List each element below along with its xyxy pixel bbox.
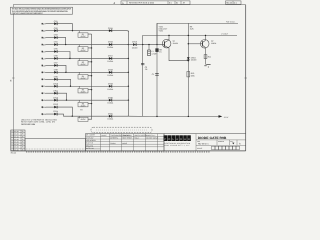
input terminal J1 xyxy=(42,23,47,26)
svg-text:-15 V: -15 V xyxy=(224,116,229,119)
zone number 4 left border xyxy=(10,78,15,83)
wire input 8 lead xyxy=(45,71,54,73)
dashed stamp box xyxy=(91,127,152,133)
supply label block xyxy=(159,25,169,32)
zone tick right border xyxy=(244,77,247,79)
wire input pair 4 merge xyxy=(57,65,66,72)
junction Q2 base xyxy=(188,43,189,44)
wire resistor R7 output stub xyxy=(88,118,92,120)
company logo POLARAD xyxy=(164,135,191,141)
diode CR16 xyxy=(187,57,196,62)
diode CR16 xyxy=(107,41,114,49)
junction bus B row 3 xyxy=(128,58,129,59)
svg-text:1N34A: 1N34A xyxy=(107,102,114,105)
wire input pair 5 merge xyxy=(57,79,70,86)
resistor R5 xyxy=(78,88,88,93)
svg-text:O: O xyxy=(168,138,170,141)
junction pair 6 xyxy=(66,99,67,100)
diode CR13 xyxy=(53,103,58,108)
svg-text:2N404: 2N404 xyxy=(173,42,178,45)
diode CR6 xyxy=(54,55,58,60)
resistor R7 xyxy=(78,109,88,122)
svg-text:45.3K: 45.3K xyxy=(81,91,87,94)
wire resistor R1 entry stub xyxy=(78,31,80,33)
notes unless otherwise indicated xyxy=(21,118,58,125)
wire gate row 2 xyxy=(66,44,129,46)
svg-text:SIZE: SIZE xyxy=(197,141,200,143)
parts list strip xyxy=(25,139,86,151)
svg-text:CR12: CR12 xyxy=(53,96,58,99)
svg-text:CR16: CR16 xyxy=(108,41,113,44)
wire L1 branch stub xyxy=(148,45,150,50)
svg-text:CR14: CR14 xyxy=(53,110,58,113)
input terminal J9 xyxy=(42,78,47,81)
svg-text:CR19: CR19 xyxy=(108,82,113,85)
wire gate row 1 xyxy=(73,31,129,32)
svg-text:1N34A: 1N34A xyxy=(107,60,114,63)
sheet right border xyxy=(245,5,247,151)
junction rail R8 xyxy=(156,116,157,117)
junction output right vertical xyxy=(188,35,189,36)
diode CR11 xyxy=(53,89,58,94)
svg-text:D: D xyxy=(188,138,190,141)
wire gate row 7 xyxy=(72,115,128,117)
capacitor C1 xyxy=(152,73,159,76)
svg-text:1N100: 1N100 xyxy=(191,59,197,62)
svg-text:RD-46: RD-46 xyxy=(11,152,16,155)
svg-text:CR15: CR15 xyxy=(132,40,137,43)
wire input pair 3 merge xyxy=(57,52,70,59)
wire input 5 lead xyxy=(45,51,54,53)
junction bus B row 4 xyxy=(128,72,129,73)
junction bus B row 2 xyxy=(128,44,129,45)
svg-text:1N34A: 1N34A xyxy=(107,46,114,49)
wire resistor R2 entry stub xyxy=(78,45,80,47)
svg-text:1N34A: 1N34A xyxy=(107,118,114,121)
diode CR2 xyxy=(54,27,58,32)
wire output line xyxy=(143,35,237,44)
input terminal J12 xyxy=(42,99,47,102)
diode CR15 xyxy=(108,27,113,32)
diode CR20 xyxy=(107,96,114,104)
wire Q2 collector xyxy=(205,35,207,40)
diode CR9 xyxy=(54,75,58,80)
wire resistor R3 output stub xyxy=(88,61,92,63)
junction Q2 collector xyxy=(205,35,206,36)
svg-text:(+) OUT: (+) OUT xyxy=(222,33,229,36)
svg-text:+15V: +15V xyxy=(159,30,164,33)
diode CR3 xyxy=(54,34,58,39)
svg-text:CR9: CR9 xyxy=(54,75,58,78)
bottom border tick marks xyxy=(26,151,210,153)
wire resistor R5 entry stub xyxy=(78,86,80,88)
svg-text:45.3K: 45.3K xyxy=(81,49,87,52)
svg-text:A: A xyxy=(184,138,186,141)
sheet top border xyxy=(13,4,246,6)
junction pair 3 xyxy=(69,58,70,59)
wire input 14 lead xyxy=(45,113,54,115)
svg-text:45.3K: 45.3K xyxy=(81,63,87,66)
dashed stamp inner dots xyxy=(96,129,147,131)
resistor R10 xyxy=(187,72,195,78)
capacitor C2 label xyxy=(145,66,148,71)
wire input 11 lead xyxy=(45,92,54,94)
svg-text:4.7MH: 4.7MH xyxy=(151,52,157,55)
junction bus A row 2 xyxy=(91,47,92,48)
sheet number box top right xyxy=(226,1,242,5)
diode CR8 xyxy=(54,68,58,73)
bus A vertical xyxy=(91,34,93,120)
input terminal J6 xyxy=(42,57,47,60)
inductor L1 xyxy=(148,50,158,56)
resistor R1 xyxy=(78,33,88,38)
svg-text:REV: REV xyxy=(230,141,233,143)
input terminal J10 xyxy=(42,85,47,88)
wire left stage vertical xyxy=(142,45,144,117)
wire gate row 4 xyxy=(66,71,128,73)
resistor R3 xyxy=(78,61,88,66)
junction pair 2 xyxy=(65,44,66,45)
svg-text:RD-46-D-1: RD-46-D-1 xyxy=(198,143,209,146)
junction output branch xyxy=(142,44,143,45)
logo subtext xyxy=(164,142,191,147)
svg-text:CR5: CR5 xyxy=(54,48,58,51)
svg-text:CR7: CR7 xyxy=(54,62,58,65)
junction bus B row 5 xyxy=(128,86,129,87)
wire R8 vertical xyxy=(156,23,158,116)
wire input 13 lead xyxy=(45,106,54,108)
diode CR22 xyxy=(132,40,138,49)
diode CR5 xyxy=(54,48,58,53)
diode CR4 xyxy=(54,41,58,46)
svg-text:6-1: 6-1 xyxy=(169,2,172,5)
input terminal J14 xyxy=(42,113,47,116)
svg-text:1N34A: 1N34A xyxy=(107,74,114,77)
svg-text:DIODE GATE R9B: DIODE GATE R9B xyxy=(198,136,227,140)
svg-text:1N34A: 1N34A xyxy=(107,88,114,91)
drawing number xyxy=(197,141,241,146)
svg-text:45.3K: 45.3K xyxy=(81,118,87,121)
diode CR10 xyxy=(53,82,58,87)
svg-text:CR17: CR17 xyxy=(108,55,113,58)
revision history table xyxy=(11,130,25,151)
svg-text:R7: R7 xyxy=(80,109,82,112)
input terminal J13 xyxy=(42,106,47,109)
junction bus B row 6 xyxy=(128,99,129,100)
svg-text:NUMBER: NUMBER xyxy=(218,141,224,143)
wire gate row 5 xyxy=(71,85,129,87)
resistor R4 xyxy=(78,75,88,80)
wire resistor R2 output stub xyxy=(88,47,92,49)
svg-text:R: R xyxy=(180,138,182,141)
approval and tolerance table xyxy=(86,134,165,151)
diode CR19 xyxy=(107,82,114,90)
wire input 12 lead xyxy=(45,99,54,101)
junction pair 7 xyxy=(72,116,73,117)
wire +15V top rail xyxy=(157,23,238,44)
diode CR7 xyxy=(54,62,58,67)
wire resistor R1 output stub xyxy=(88,33,92,35)
resistor R8 xyxy=(156,48,163,53)
diode CR18 xyxy=(107,68,114,76)
svg-text:61: 61 xyxy=(176,2,178,5)
arrow -15V xyxy=(219,115,223,118)
svg-text:P: P xyxy=(164,138,166,141)
wire resistor R4 entry stub xyxy=(78,72,80,74)
junction L1 branch xyxy=(148,44,149,45)
sheet bottom border xyxy=(11,150,246,152)
input terminal J7 xyxy=(42,64,47,67)
svg-text:CR6: CR6 xyxy=(54,55,58,58)
junction rail R10 xyxy=(188,116,189,117)
wire Q2 emitter xyxy=(205,48,207,65)
bus B vertical xyxy=(127,31,129,117)
input terminal J8 xyxy=(42,71,47,74)
wire input 4 lead xyxy=(45,44,54,46)
svg-text:45.3K: 45.3K xyxy=(81,105,87,108)
svg-text:CR15: CR15 xyxy=(108,27,113,30)
ground Q2 emitter xyxy=(204,65,210,67)
svg-text:45.3K: 45.3K xyxy=(81,77,87,80)
svg-text:R11: R11 xyxy=(208,56,211,59)
svg-text:2N404: 2N404 xyxy=(211,42,216,45)
junction pair 5 xyxy=(70,86,71,87)
svg-text:CR8: CR8 xyxy=(54,68,58,71)
transistor Q1 xyxy=(162,39,178,48)
svg-text:1N100: 1N100 xyxy=(132,46,138,49)
wire input 9 lead xyxy=(45,78,54,80)
wire input 1 lead xyxy=(45,23,54,25)
resistor R6 xyxy=(78,102,88,107)
junction pair 1 xyxy=(72,30,73,31)
input terminal J4 xyxy=(42,43,47,46)
diode CR17 xyxy=(107,55,114,63)
svg-text:CR1: CR1 xyxy=(54,20,58,23)
diode CR1 xyxy=(54,20,58,25)
svg-text:45.3K: 45.3K xyxy=(81,35,87,38)
svg-text:CR3: CR3 xyxy=(54,34,58,37)
junction bus A row 5 xyxy=(91,89,92,90)
wire resistor R3 entry stub xyxy=(78,58,80,60)
svg-text:REVISED PER ECN 4-1062: REVISED PER ECN 4-1062 xyxy=(129,2,155,5)
svg-text:CR4: CR4 xyxy=(54,41,58,44)
wire resistor R7 entry stub xyxy=(78,116,80,118)
wire -15V rail xyxy=(128,115,219,117)
input terminal J3 xyxy=(42,37,47,40)
wire gate row 3 xyxy=(70,57,128,59)
title block xyxy=(164,134,246,151)
junction emitter jumper xyxy=(188,60,189,61)
wire right branch vertical xyxy=(187,23,189,116)
wire input pair 7 merge xyxy=(57,107,72,116)
svg-text:.05: .05 xyxy=(145,68,148,71)
wire input 7 lead xyxy=(45,64,54,66)
svg-text:CR18: CR18 xyxy=(108,68,113,71)
diode CR12 xyxy=(53,96,58,101)
wire input 10 lead xyxy=(45,85,54,87)
svg-text:A: A xyxy=(176,138,178,141)
input terminal J2 xyxy=(42,30,47,33)
resistor R2 xyxy=(78,47,88,52)
sheet left border xyxy=(13,5,15,151)
svg-text:+15 V D.C.: +15 V D.C. xyxy=(226,21,236,24)
junction Q1 collector xyxy=(168,35,169,36)
wire gate row 6 xyxy=(67,99,129,101)
capacitor C2 xyxy=(141,63,144,65)
wire input 6 lead xyxy=(45,57,54,59)
wire input 2 lead xyxy=(45,30,54,32)
diode CR14 xyxy=(53,110,58,115)
scale strip xyxy=(197,146,240,150)
transistor Q2 xyxy=(188,40,216,49)
junction pair 4 xyxy=(65,72,66,73)
svg-text:D-1: D-1 xyxy=(234,2,237,5)
junction bus A row 6 xyxy=(91,103,92,104)
resistor R11 xyxy=(204,55,211,59)
wire resistor R6 entry stub xyxy=(78,100,80,102)
svg-text:CR20: CR20 xyxy=(108,96,113,99)
wire Q1 collector xyxy=(168,35,170,40)
input terminal J11 xyxy=(42,92,47,95)
svg-text:C1: C1 xyxy=(152,73,154,76)
svg-text:DIODES ARE 1N34: DIODES ARE 1N34 xyxy=(21,123,36,126)
input terminal J5 xyxy=(42,50,47,53)
wire input pair 6 merge xyxy=(57,93,66,100)
svg-text:CR11: CR11 xyxy=(53,89,58,92)
wire Q1 base line xyxy=(128,44,165,46)
svg-text:CR13: CR13 xyxy=(53,103,58,106)
wire input 3 lead xyxy=(45,37,54,39)
svg-text:RD-46: RD-46 xyxy=(226,2,231,5)
svg-text:CR2: CR2 xyxy=(54,27,58,30)
wire input pair 2 merge xyxy=(57,38,65,45)
wire Q1 emitter xyxy=(169,48,188,61)
svg-text:CIRCUIT QUALIFICATION COMPONEN: CIRCUIT QUALIFICATION COMPONENT xyxy=(12,12,44,15)
wire resistor R6 output stub xyxy=(88,103,92,105)
svg-text:CR21: CR21 xyxy=(108,112,113,115)
general notes box xyxy=(11,7,73,15)
wire input pair 1 merge xyxy=(57,24,72,31)
diode CR21 xyxy=(107,112,114,120)
revision strip box xyxy=(121,1,190,5)
junction R8 branch xyxy=(156,44,157,45)
junction bus A row 4 xyxy=(91,75,92,76)
wire resistor R5 output stub xyxy=(88,89,92,91)
wire resistor R4 output stub xyxy=(88,75,92,77)
resistor R9 label xyxy=(190,26,195,31)
junction bus A row 3 xyxy=(91,61,92,62)
svg-text:CR10: CR10 xyxy=(53,82,58,85)
